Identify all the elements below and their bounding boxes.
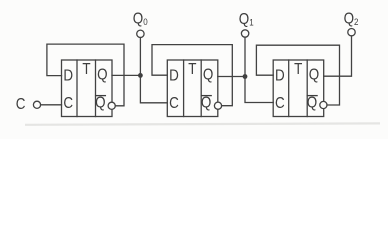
svg-text:Q: Q: [201, 95, 211, 112]
wire U1 Q to U2 clock: [140, 75, 167, 102]
wire U2 Q output: [218, 76, 245, 78]
svg-text:Q: Q: [203, 67, 213, 84]
pin label Q (U1): [97, 67, 107, 84]
pin label C (U3): [275, 95, 285, 112]
svg-text:Q1: Q1: [239, 11, 254, 28]
svg-text:Q: Q: [95, 95, 105, 112]
terminal Q0: [137, 30, 144, 37]
pin label D (U2): [169, 67, 179, 84]
wire U2 feedback Qbar to D: [152, 45, 232, 106]
wire Q0 riser: [139, 38, 141, 76]
svg-text:C: C: [63, 95, 73, 112]
node Q1 junction: [243, 74, 248, 79]
pin label Q (U2): [203, 67, 213, 84]
svg-text:Q2: Q2: [344, 11, 359, 28]
pin label D (U3): [275, 67, 285, 84]
svg-text:Q0: Q0: [133, 10, 148, 27]
label Q1: [239, 11, 254, 28]
svg-text:C: C: [16, 96, 26, 113]
inverting bubble U3 Qbar: [320, 101, 327, 108]
svg-text:D: D: [275, 67, 285, 84]
flip-flop U2 box: [167, 60, 218, 117]
svg-text:Q: Q: [97, 67, 107, 84]
svg-text:T: T: [294, 61, 302, 78]
pin label Qbar (U2): [201, 95, 211, 112]
node Q0 junction: [138, 73, 143, 78]
wire Q1 riser: [244, 37, 246, 76]
wire U2 Q to U3 clock: [245, 77, 273, 103]
label Q0: [133, 10, 148, 27]
svg-text:D: D: [63, 67, 73, 84]
svg-text:D: D: [169, 67, 179, 84]
pin label Qbar (U1): [95, 95, 105, 112]
svg-text:Q: Q: [307, 95, 317, 112]
terminal C: [33, 101, 40, 108]
flip-flop U1 box: [62, 60, 113, 117]
pin label Qbar (U3): [307, 95, 317, 112]
wire U1 Q output: [112, 74, 140, 76]
svg-text:C: C: [169, 95, 179, 112]
wire C input to U1 clock: [41, 104, 62, 106]
svg-text:Q: Q: [309, 67, 319, 84]
svg-text:C: C: [275, 95, 285, 112]
pin label Q (U3): [309, 67, 319, 84]
terminal Q2: [348, 29, 355, 36]
wire U1 feedback Qbar to D: [47, 44, 124, 106]
node C input label: [16, 96, 26, 113]
flip-flop U3 box: [273, 60, 324, 117]
terminal Q1: [241, 30, 248, 37]
inverting bubble U2 Qbar: [214, 102, 221, 109]
pin label D (U1): [63, 67, 73, 84]
wire U3 feedback Qbar to D: [256, 45, 339, 105]
svg-text:T: T: [82, 61, 90, 78]
wire U3 Q output to Q2 terminal: [324, 36, 352, 76]
label T (U1): [82, 61, 90, 78]
pin label C (U1): [63, 95, 73, 112]
inverting bubble U1 Qbar: [108, 102, 115, 109]
svg-text:T: T: [188, 61, 196, 78]
label Q2: [344, 11, 359, 28]
label T (U2): [188, 61, 196, 78]
pin label C (U2): [169, 95, 179, 112]
label T (U3): [294, 61, 302, 78]
